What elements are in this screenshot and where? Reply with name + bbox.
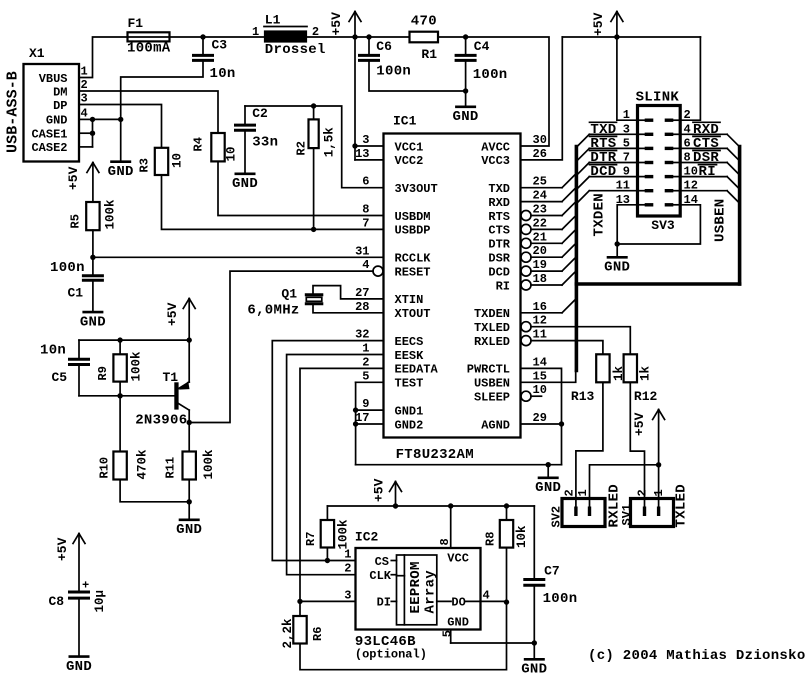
node C7 ground junction: [532, 640, 537, 645]
svg-text:+: +: [82, 579, 89, 593]
svg-text:R13: R13: [571, 389, 595, 404]
wire SLEEP stub (n.c.): [521, 391, 531, 401]
node C6 junction: [366, 34, 371, 39]
svg-text:29: 29: [533, 411, 547, 425]
svg-text:FT8U232AM: FT8U232AM: [396, 447, 474, 463]
svg-text:4: 4: [362, 258, 369, 272]
capacitor C2 33n: [244, 106, 246, 124]
node SV3 ground junction: [615, 241, 620, 246]
wire VCC3 pin 26 to +5V rail: [521, 37, 563, 160]
wire DCD stub to bus: [521, 266, 531, 276]
wire C3 bottom to X1 ground net: [121, 62, 203, 118]
IC2 EEPROM Array block: [397, 555, 437, 625]
svg-text:CASE1: CASE1: [31, 127, 67, 141]
svg-text:+5V: +5V: [591, 12, 606, 36]
node R9 bottom junction: [117, 393, 122, 398]
ground below C8: [78, 600, 80, 656]
svg-text:(c) 2004 Mathias Dzionsko: (c) 2004 Mathias Dzionsko: [588, 648, 806, 664]
wire R5 to RCCLK node: [92, 230, 94, 257]
svg-text:DCD: DCD: [488, 265, 510, 279]
wire RXD stub to bus: [521, 201, 563, 203]
svg-text:23: 23: [533, 203, 547, 217]
capacitor C3 10n: [202, 37, 204, 54]
svg-text:TEST: TEST: [395, 377, 424, 391]
wire DO pin 4 to R8 node: [481, 600, 507, 602]
capacitor C8 10u polarized: [68, 591, 90, 594]
bus bottom horizontal: [576, 282, 739, 286]
node R2 top junction: [311, 103, 316, 108]
svg-text:100k: 100k: [202, 449, 216, 480]
svg-text:CLK: CLK: [369, 569, 391, 583]
node R8/DO junction: [504, 599, 509, 604]
svg-text:25: 25: [533, 175, 547, 189]
wire to SV3 pin 1: [617, 37, 638, 120]
svg-text:VCC3: VCC3: [481, 154, 510, 168]
svg-text:100n: 100n: [473, 67, 508, 83]
svg-text:RXD: RXD: [488, 196, 510, 210]
svg-text:8: 8: [362, 203, 369, 217]
svg-text:1k: 1k: [639, 365, 653, 381]
svg-text:GND: GND: [535, 480, 561, 496]
svg-text:GND: GND: [80, 315, 106, 331]
svg-text:SLINK: SLINK: [636, 90, 680, 106]
wire TXD stub to bus: [521, 187, 563, 189]
svg-text:DM: DM: [53, 85, 67, 99]
svg-text:R10: R10: [98, 457, 112, 479]
svg-text:GND: GND: [66, 659, 92, 675]
svg-text:2: 2: [344, 562, 351, 576]
svg-text:GND2: GND2: [395, 418, 424, 432]
svg-text:GND: GND: [176, 522, 202, 538]
node CASE1 junction: [90, 131, 95, 136]
svg-text:10: 10: [533, 383, 547, 397]
svg-text:16: 16: [533, 300, 547, 314]
wire DSR stub to bus: [521, 252, 531, 262]
SV3 pads row 1: [639, 119, 646, 121]
connector SV2 RXLED: [562, 499, 605, 527]
svg-text:AVCC: AVCC: [481, 140, 510, 154]
svg-text:RESET: RESET: [395, 265, 431, 279]
SV3 pads row 5: [639, 176, 646, 178]
power +5V above IC2: [395, 482, 397, 507]
svg-text:470: 470: [411, 14, 437, 30]
svg-text:2,2k: 2,2k: [281, 618, 295, 649]
svg-text:2: 2: [563, 489, 577, 496]
node GND symbol junction: [546, 462, 551, 467]
svg-text:TXLED: TXLED: [674, 484, 690, 528]
resistor R10 470k: [119, 396, 121, 452]
wire +5V rail over IC2: [327, 505, 534, 507]
SV3 pads row 2: [639, 133, 646, 135]
svg-text:GND: GND: [46, 114, 68, 128]
resistor R6 2,2k: [299, 601, 301, 616]
IC1 RESET bubble pin 4: [373, 266, 383, 276]
wire R12 to SV1 pin 2: [630, 382, 644, 507]
node C6/C4 ground junction: [463, 88, 468, 93]
node IC2 VCC junction: [448, 503, 453, 508]
node SLINK +5V junction: [614, 34, 619, 39]
ground below C1: [92, 282, 94, 311]
svg-text:DSR: DSR: [488, 252, 510, 266]
svg-text:TXLED: TXLED: [474, 321, 510, 335]
svg-text:10µ: 10µ: [93, 590, 107, 613]
node R7/CS junction: [325, 558, 330, 563]
resistor R5 100k: [86, 202, 99, 230]
connector SV1 TXLED: [631, 499, 674, 527]
svg-text:SV2: SV2: [550, 506, 564, 528]
svg-text:R1: R1: [421, 47, 437, 62]
wire R10/R11 bottoms to ground: [120, 480, 189, 502]
svg-text:4: 4: [81, 106, 88, 120]
svg-text:1: 1: [576, 489, 590, 496]
wire USBEN pin 15 to bus bottom: [521, 371, 576, 383]
svg-text:28: 28: [355, 300, 369, 314]
svg-text:3: 3: [362, 133, 369, 147]
wire 3V3OUT net: [245, 106, 384, 188]
ground below C4: [465, 91, 467, 106]
svg-text:1: 1: [344, 548, 351, 562]
svg-text:C7: C7: [544, 564, 560, 579]
wire R13 to SV2 pin 2: [576, 382, 603, 507]
svg-text:10k: 10k: [515, 525, 529, 548]
svg-text:TXD: TXD: [488, 182, 510, 196]
wire T1 base rail: [79, 395, 175, 397]
resistor R11 100k: [183, 452, 196, 480]
wire XTIN from crystal to IC1 pin 27: [313, 286, 384, 299]
wire TEST/GND1/GND2 to ground: [356, 381, 384, 383]
node R9 top junction: [117, 337, 122, 342]
wire R6 bottom to DO net: [300, 602, 507, 670]
node GND1 junction: [353, 407, 358, 412]
svg-text:6,0MHz: 6,0MHz: [247, 303, 299, 319]
svg-text:R6: R6: [311, 627, 325, 641]
node +5V rail junction: [352, 34, 357, 39]
svg-text:9: 9: [362, 397, 369, 411]
svg-text:GND1: GND1: [395, 404, 424, 418]
svg-text:+5V: +5V: [329, 12, 344, 36]
power +5V above T1: [188, 299, 190, 341]
node GND2 junction: [353, 421, 358, 426]
svg-text:+5V: +5V: [165, 302, 180, 326]
svg-text:T1: T1: [163, 370, 179, 385]
IC IC2 93LC46B: [356, 548, 481, 630]
ground below C2: [244, 132, 246, 173]
svg-text:VCC1: VCC1: [395, 140, 424, 154]
svg-text:IC2: IC2: [355, 530, 379, 545]
svg-text:C5: C5: [52, 370, 68, 385]
svg-text:100n: 100n: [50, 260, 85, 276]
wire CTS stub to bus: [521, 224, 531, 234]
svg-text:TXDEN: TXDEN: [474, 307, 510, 321]
wire EESK to IC2 CLK: [287, 355, 384, 575]
svg-text:EEDATA: EEDATA: [395, 363, 439, 377]
svg-text:X1: X1: [29, 46, 45, 61]
svg-text:RCCLK: RCCLK: [395, 252, 432, 266]
svg-text:RI: RI: [496, 279, 510, 293]
svg-text:C4: C4: [474, 39, 490, 54]
resistor R8 10k: [506, 506, 508, 520]
svg-text:VBUS: VBUS: [39, 72, 68, 86]
wire R8 to DO net: [506, 548, 508, 603]
capacitor C6 100n: [368, 37, 370, 54]
svg-text:C8: C8: [49, 594, 65, 609]
svg-text:RTS: RTS: [488, 210, 510, 224]
svg-text:GND: GND: [108, 164, 134, 180]
node AGND/PWRCTL junction: [559, 421, 564, 426]
svg-text:7: 7: [362, 216, 369, 230]
svg-text:33n: 33n: [252, 135, 278, 151]
wire DP from X1 to R3: [79, 105, 162, 148]
svg-text:RXLED: RXLED: [474, 335, 510, 349]
svg-text:USBDM: USBDM: [395, 210, 431, 224]
svg-text:VCC2: VCC2: [395, 154, 424, 168]
svg-text:R5: R5: [69, 214, 83, 228]
wire EEDATA to IC2 DI: [300, 368, 384, 601]
svg-text:CTS: CTS: [488, 224, 510, 238]
net DTR to SV3 pin 7: [589, 162, 637, 164]
svg-text:3: 3: [344, 588, 351, 602]
svg-text:18: 18: [533, 272, 547, 286]
wire junction to L1: [203, 36, 265, 38]
svg-text:USBDP: USBDP: [395, 224, 431, 238]
svg-text:2: 2: [81, 78, 88, 92]
wire DM from X1 to R4: [79, 91, 218, 133]
wire X1 ground pins: [79, 118, 93, 120]
svg-text:SV3: SV3: [651, 218, 675, 233]
svg-text:21: 21: [533, 230, 547, 244]
wire AGND stub pin 29: [521, 423, 562, 425]
ground below R11: [188, 502, 190, 519]
wire XTOUT from crystal to IC1 pin 28: [313, 304, 384, 313]
net RTS to SV3 pin 5: [589, 147, 637, 149]
resistor R2 1,5k: [313, 106, 315, 119]
transistor T1 2N3906: [174, 382, 178, 409]
resistor R4 10: [211, 133, 224, 161]
wire C4 bottom: [465, 62, 467, 91]
resistor R3 10: [155, 148, 168, 175]
svg-text:31: 31: [355, 244, 369, 258]
svg-text:2N3906: 2N3906: [135, 413, 187, 429]
wire VBUS from X1 pin1 up to F1: [79, 37, 128, 78]
wire ground run below IC1: [356, 464, 562, 466]
SV3 pads row 3: [639, 147, 646, 149]
wire TXLED to R12: [521, 322, 531, 332]
svg-text:5: 5: [362, 369, 369, 383]
svg-text:1: 1: [81, 65, 88, 79]
node VBUS-C3 junction: [200, 34, 205, 39]
svg-text:24: 24: [533, 189, 547, 203]
svg-text:20: 20: [533, 244, 547, 258]
svg-text:1: 1: [652, 489, 666, 496]
svg-text:(optional): (optional): [355, 648, 427, 662]
svg-text:26: 26: [533, 147, 547, 161]
wire R7 to CS net: [326, 548, 328, 561]
svg-text:13: 13: [355, 147, 369, 161]
power +5V (SLINK): [616, 12, 618, 38]
wire R2 bottom to USBDP: [313, 148, 315, 229]
svg-text:100k: 100k: [104, 199, 118, 230]
svg-text:L1: L1: [265, 13, 281, 28]
power +5V (main rail): [354, 12, 356, 38]
svg-text:CASE2: CASE2: [31, 141, 67, 155]
svg-text:1: 1: [362, 342, 369, 356]
svg-text:GND: GND: [453, 109, 479, 125]
svg-text:R9: R9: [96, 366, 110, 380]
svg-text:+5V: +5V: [632, 412, 647, 436]
svg-text:R3: R3: [137, 158, 151, 172]
svg-text:11: 11: [533, 328, 547, 342]
svg-text:USBEN: USBEN: [474, 377, 510, 391]
svg-text:F1: F1: [128, 16, 144, 31]
svg-text:100k: 100k: [130, 351, 144, 382]
SV3 pads row 7: [639, 204, 646, 206]
ground below IC1: [547, 465, 549, 477]
svg-text:GND: GND: [232, 176, 258, 192]
svg-text:C3: C3: [212, 38, 228, 53]
ground below SV3: [616, 244, 618, 257]
wire IC2 VCC pin 8: [450, 506, 452, 548]
connector SV3 SLINK: [638, 106, 681, 217]
wire IC2 GND to ground: [451, 642, 535, 644]
bus right vertical USBEN: [738, 147, 742, 285]
inductor L1 Drossel: [264, 26, 307, 28]
wire RCCLK to IC1 pin 31: [93, 256, 384, 258]
svg-text:R2: R2: [295, 141, 309, 155]
wire C6 bottom to ground line: [369, 62, 464, 91]
svg-text:DP: DP: [53, 99, 67, 113]
wire TXDEN stub to bus: [521, 312, 563, 314]
SV3 pads row 6: [639, 190, 646, 192]
net CTS to SV3 pin 6: [680, 147, 727, 149]
capacitor C7 100n: [533, 506, 535, 578]
power +5V above R5: [92, 163, 94, 203]
svg-text:DTR: DTR: [488, 238, 510, 252]
SV2 pads: [574, 507, 577, 517]
node USBDP/R2 junction: [311, 227, 316, 232]
svg-text:100n: 100n: [543, 591, 578, 607]
svg-text:14: 14: [533, 355, 547, 369]
svg-text:GND: GND: [447, 616, 469, 630]
svg-text:C2: C2: [252, 106, 268, 121]
wire PWRCTL to AGND: [521, 368, 562, 424]
svg-text:100k: 100k: [336, 519, 350, 550]
svg-text:3V3OUT: 3V3OUT: [395, 182, 438, 196]
wire collector to R11: [188, 423, 190, 452]
wire +5V rail to R1: [355, 36, 410, 38]
svg-text:12: 12: [533, 314, 547, 328]
svg-text:22: 22: [533, 216, 547, 230]
ground below X1: [110, 160, 131, 163]
svg-text:R7: R7: [304, 532, 318, 546]
svg-text:5: 5: [440, 630, 454, 637]
svg-text:R4: R4: [192, 137, 206, 151]
wire SLINK +5V rail: [562, 36, 700, 38]
svg-text:8: 8: [438, 538, 452, 545]
svg-text:3: 3: [81, 92, 88, 106]
wire RXLED to R13: [521, 336, 531, 346]
IC IC1 FT8U232AM: [384, 134, 521, 438]
net USBEN to SV3 pin 12: [680, 190, 727, 192]
svg-text:100mA: 100mA: [127, 41, 171, 57]
SV3 pads row 4: [639, 162, 646, 164]
net TXDEN to SV3 pin 11: [589, 190, 637, 192]
svg-text:R12: R12: [634, 389, 658, 404]
fuse F1 100mA: [128, 36, 170, 38]
svg-text:2: 2: [636, 489, 650, 496]
node C3/GND junction: [118, 117, 123, 122]
SV1 pads: [643, 507, 646, 517]
resistor R13 1k: [596, 354, 609, 382]
svg-text:C6: C6: [376, 39, 392, 54]
node R8 junction: [504, 503, 509, 508]
svg-text:TXDEN: TXDEN: [592, 193, 608, 237]
svg-text:SLEEP: SLEEP: [474, 391, 510, 405]
connector X1 USB-ASS-B: [24, 64, 80, 162]
svg-text:AGND: AGND: [481, 418, 510, 432]
node +5V arrow junction: [393, 503, 398, 508]
svg-text:Array: Array: [422, 570, 438, 614]
svg-text:GND: GND: [521, 662, 547, 678]
svg-text:DCD: DCD: [590, 164, 616, 180]
svg-text:RI: RI: [699, 164, 716, 180]
wire +5V to SV2 pin 1 and SV1 pin 1: [590, 465, 659, 508]
net DCD to SV3 pin 9: [589, 176, 637, 178]
power +5V above SV1/SV2: [658, 410, 660, 465]
node T1 collector junction: [187, 420, 192, 425]
wire R3 to IC1 USBDP pin 7: [162, 175, 384, 229]
node SV +5V junction: [656, 462, 661, 467]
svg-text:6: 6: [362, 175, 369, 189]
wire SV3 pin 13 to ground: [617, 205, 637, 244]
resistor R1 470: [410, 36, 439, 38]
svg-text:Drossel: Drossel: [265, 42, 326, 58]
wire AVCC feed to IC1 pin 30: [466, 37, 549, 146]
svg-text:19: 19: [533, 258, 547, 272]
net TXD to SV3 pin 3: [589, 133, 637, 135]
svg-text:+5V: +5V: [66, 166, 81, 190]
svg-text:GND: GND: [604, 260, 630, 276]
capacitor C4 100n: [465, 37, 467, 54]
wire +5V to VCC1/VCC2: [354, 37, 356, 146]
wire R1 to C4 junction: [438, 36, 466, 38]
wire AGND up: [561, 424, 563, 465]
svg-text:SV1: SV1: [620, 504, 634, 526]
wire to SV3 pin 2: [680, 37, 700, 120]
node EEDATA/DI/R6 junction: [297, 599, 302, 604]
resistor R12 1k: [624, 354, 637, 382]
wire RTS stub to bus: [521, 211, 531, 221]
bus left vertical TXDEN: [575, 147, 579, 371]
power +5V above C8: [78, 534, 80, 591]
svg-text:470k: 470k: [136, 449, 150, 480]
node R11 ground junction: [187, 499, 192, 504]
svg-text:1: 1: [252, 25, 259, 39]
ground below C7: [533, 643, 535, 659]
svg-text:+5V: +5V: [372, 478, 387, 502]
svg-text:EESK: EESK: [395, 349, 425, 363]
node RCCLK junction: [90, 255, 95, 260]
net RI to SV3 pin 10: [680, 176, 727, 178]
wire DTR stub to bus: [521, 238, 531, 248]
svg-text:2: 2: [362, 355, 369, 369]
svg-text:30: 30: [533, 133, 547, 147]
svg-text:4: 4: [483, 588, 490, 602]
svg-text:15: 15: [533, 369, 547, 383]
svg-text:IC1: IC1: [393, 114, 417, 129]
net DSR to SV3 pin 8: [680, 162, 727, 164]
svg-text:+5V: +5V: [55, 537, 70, 561]
svg-text:CS: CS: [375, 555, 389, 569]
